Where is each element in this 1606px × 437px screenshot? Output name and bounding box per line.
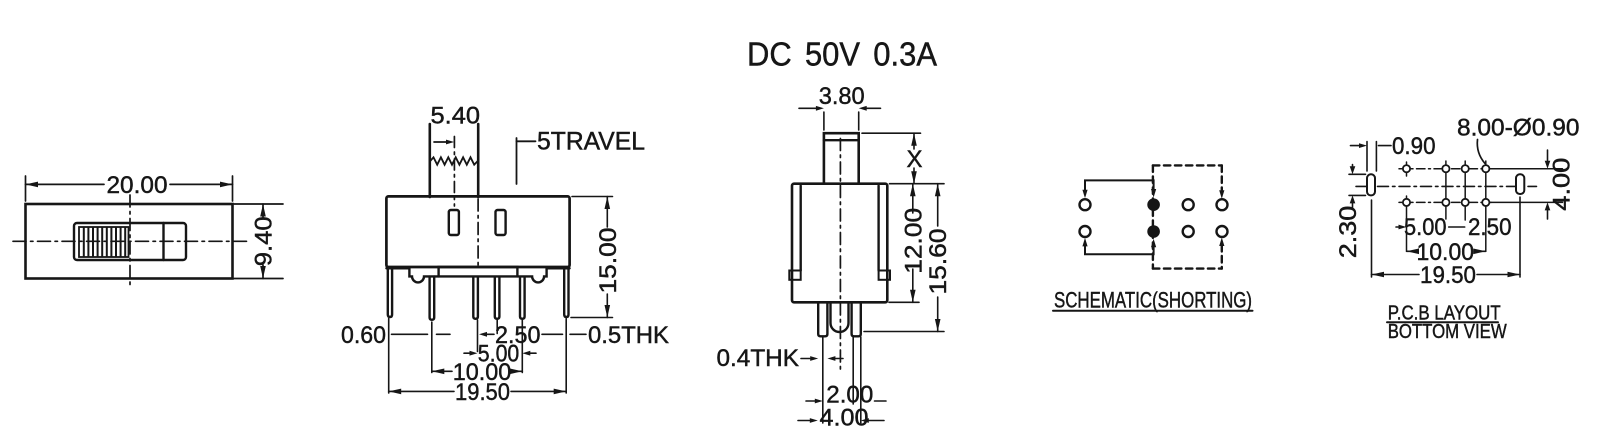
svg-text:12.00: 12.00	[900, 208, 927, 274]
svg-text:15.00: 15.00	[595, 228, 622, 294]
schematic dashed arrows	[1219, 190, 1224, 199]
pcb right slot	[1516, 174, 1524, 194]
pcb column marks	[1407, 161, 1486, 251]
side centerline	[839, 139, 841, 374]
svg-text:5TRAVEL: 5TRAVEL	[537, 127, 645, 155]
svg-text:DC 50V 0.3A: DC 50V 0.3A	[747, 37, 938, 74]
dimension 2.00	[806, 399, 886, 404]
dimension X	[862, 133, 921, 184]
svg-text:3.80: 3.80	[819, 83, 865, 110]
front pin C	[495, 277, 500, 319]
travel arrow	[434, 141, 448, 143]
pcb centerline	[1356, 185, 1537, 187]
front extension lines below	[389, 319, 567, 394]
pcb right extension row1	[1491, 168, 1563, 170]
dimension 5.00 pcb	[1396, 225, 1407, 230]
front body	[386, 196, 569, 267]
dimension 2.30	[1349, 165, 1366, 210]
svg-text:9.40: 9.40	[251, 216, 278, 266]
pcb left slot	[1367, 174, 1375, 195]
slider opening	[74, 223, 186, 260]
top view horizontal centerline	[13, 240, 251, 242]
svg-text:4.00: 4.00	[820, 405, 869, 432]
knob centerline	[453, 137, 455, 207]
pcb row1 centerline	[1399, 168, 1491, 170]
side frame left line	[800, 186, 802, 271]
dimension 19.50 front	[389, 389, 567, 395]
front hole left	[449, 210, 459, 235]
svg-text:8.00-Ø0.90: 8.00-Ø0.90	[1457, 114, 1580, 141]
pcb holes row1	[1403, 165, 1490, 172]
label 0.5THK	[542, 333, 586, 335]
dimension 12.00	[889, 184, 919, 303]
top view body	[26, 204, 233, 279]
dimension 9.40	[234, 204, 283, 279]
svg-text:0.60: 0.60	[341, 322, 386, 349]
svg-text:15.60: 15.60	[925, 229, 952, 295]
side pin left	[818, 303, 827, 337]
dimension 10.00 front	[432, 369, 523, 375]
svg-text:BOTTOM VIEW: BOTTOM VIEW	[1388, 321, 1507, 343]
svg-text:4.00: 4.00	[1549, 158, 1576, 211]
svg-text:2.50: 2.50	[1468, 214, 1512, 241]
pcb holes row2	[1403, 199, 1490, 206]
front pin B	[473, 277, 478, 319]
side frame right step	[879, 271, 890, 280]
dimension 15.60	[864, 184, 944, 332]
svg-text:19.50: 19.50	[1420, 262, 1476, 289]
dimension 20.00	[26, 176, 233, 201]
svg-text:X: X	[907, 146, 923, 173]
schematic bottom wire	[1085, 243, 1154, 254]
dimension 4.00 pcb	[1545, 150, 1551, 219]
dimension 2.50 front	[437, 332, 495, 337]
side knob	[824, 133, 859, 184]
svg-text:SCHEMATIC(SHORTING): SCHEMATIC(SHORTING)	[1054, 287, 1252, 312]
svg-text:20.00: 20.00	[107, 172, 168, 199]
side center stub	[831, 303, 849, 333]
slider divider line	[162, 223, 164, 260]
side frame left step	[789, 271, 800, 280]
pcb row2 centerline	[1399, 201, 1491, 203]
side knob cap line	[824, 139, 859, 141]
svg-text:19.50: 19.50	[455, 379, 510, 406]
svg-text:5.00: 5.00	[1404, 214, 1447, 241]
front pin D	[520, 277, 525, 319]
front pin A	[430, 277, 435, 320]
dimension 2.50 pcb	[1449, 226, 1465, 228]
svg-text:5.40: 5.40	[431, 103, 481, 130]
dimension 0.90	[1351, 142, 1392, 172]
front body centerline	[477, 199, 479, 265]
pcb right extension row2	[1488, 201, 1563, 203]
side frame right line	[877, 186, 879, 271]
dimension 3.80	[799, 106, 881, 130]
side pin right	[852, 303, 861, 337]
front hole right	[496, 210, 506, 235]
side body	[792, 184, 887, 303]
knob break zigzag	[430, 157, 478, 164]
leader to hole	[1477, 140, 1485, 164]
dimension 19.50 pcb	[1372, 197, 1521, 277]
top view vertical centerline	[129, 195, 131, 288]
schematic contact circles row 1	[1080, 199, 1091, 210]
side extension lines below	[823, 337, 861, 423]
schematic top wire	[1085, 180, 1154, 193]
knob sides	[428, 124, 431, 197]
schematic contact circles row 2	[1080, 226, 1091, 237]
dimension 4.00	[798, 418, 884, 423]
svg-text:0.5THK: 0.5THK	[588, 322, 669, 349]
dimension 15.00	[571, 197, 613, 318]
slider knob hatched	[79, 227, 129, 257]
svg-text:0.90: 0.90	[1392, 133, 1436, 160]
svg-text:0.4THK: 0.4THK	[717, 345, 800, 372]
front bottom frame edge	[386, 268, 569, 282]
dimension 10.00 pcb	[1407, 249, 1486, 255]
front left leg	[388, 269, 392, 318]
dimension 5.00 front	[464, 351, 536, 356]
schematic dashed box	[1153, 165, 1222, 268]
front base plate	[439, 267, 518, 276]
front right leg	[564, 269, 568, 318]
svg-text:2.30: 2.30	[1335, 206, 1362, 259]
label 5TRAVEL with leader	[516, 138, 518, 184]
